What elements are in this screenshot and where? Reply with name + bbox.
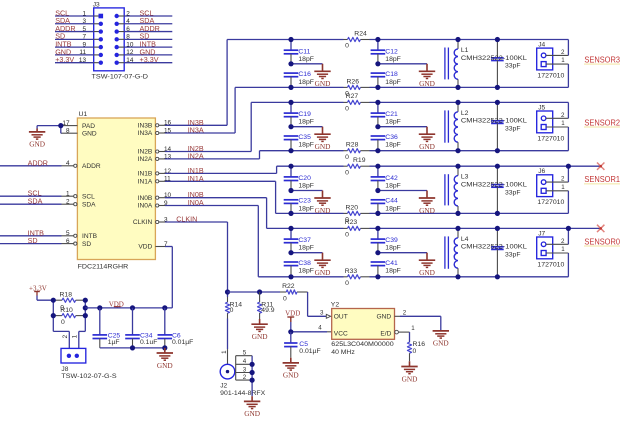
svg-text:1: 1 (561, 184, 565, 191)
svg-text:C37: C37 (298, 237, 311, 244)
svg-text:L2: L2 (461, 110, 469, 117)
connector J4 1727010 (537, 42, 569, 80)
svg-text:R28: R28 (346, 142, 359, 149)
no-connect X (597, 225, 604, 232)
svg-text:IN3A: IN3A (188, 126, 204, 135)
resistor R26 0 (345, 78, 360, 97)
U1 pin 4 ADDR (62, 160, 101, 170)
ground Y2 (433, 331, 449, 348)
wire IN3B top rail (227, 39, 568, 41)
svg-text:5: 5 (66, 230, 70, 237)
wire net IN3A (165, 87, 235, 134)
svg-text:GND: GND (419, 268, 435, 277)
svg-text:GND: GND (157, 361, 173, 370)
svg-text:GND: GND (376, 314, 391, 321)
junction right cap top (375, 100, 380, 105)
wire net SD stub (0, 236, 62, 245)
svg-text:VDD: VDD (285, 309, 300, 317)
svg-text:8: 8 (66, 128, 70, 135)
svg-text:J6: J6 (538, 168, 545, 175)
capacitor C19 18pF (284, 102, 314, 126)
svg-text:IN1B: IN1B (138, 171, 153, 178)
svg-text:GND: GND (82, 130, 97, 137)
junction right cap top (375, 226, 380, 231)
wire net IN0B (165, 190, 267, 228)
capacitor C38 18pF (284, 260, 314, 277)
svg-text:E/D: E/D (380, 330, 391, 337)
capacitor C34 0.1uF (125, 308, 157, 348)
svg-text:VDD: VDD (138, 244, 152, 251)
svg-text:40 MHz: 40 MHz (331, 349, 355, 356)
resistor R24 0 (345, 30, 367, 49)
svg-text:C41: C41 (385, 260, 398, 267)
ground left (314, 127, 330, 151)
svg-text:18pF: 18pF (385, 56, 401, 63)
svg-text:18pF: 18pF (385, 206, 401, 213)
junction VDD caps (97, 305, 102, 310)
J3 pin 8 wire / net SD (115, 32, 173, 42)
junction 33pF top (495, 164, 500, 169)
svg-text:IN2A: IN2A (188, 151, 204, 160)
Y2 pin 4 VCC (318, 325, 348, 338)
ground C5 (283, 358, 299, 380)
wire J7 pin 2 to top rail (567, 228, 569, 244)
connector J3 (92, 1, 149, 80)
connector J7 1727010 (537, 230, 569, 268)
svg-text:0: 0 (283, 296, 287, 303)
svg-text:2: 2 (66, 199, 70, 206)
svg-text:R33: R33 (345, 268, 358, 275)
svg-text:6: 6 (126, 26, 130, 33)
wire PAD/GND of U1 to ground (37, 126, 61, 134)
junction inductor bottom (455, 211, 460, 216)
junction 33pF top (495, 100, 500, 105)
svg-text:13: 13 (79, 57, 87, 64)
wire net SCL stub (0, 189, 62, 198)
junction inductor top (455, 100, 460, 105)
svg-text:GND: GND (402, 374, 418, 383)
svg-text:33pF: 33pF (505, 126, 521, 133)
junction inductor bottom (455, 85, 460, 90)
svg-text:0: 0 (61, 319, 65, 326)
J3 pin 14 wire / net +3.3V (115, 55, 173, 65)
junction inductor top (455, 164, 460, 169)
svg-text:+3.3V: +3.3V (55, 55, 74, 64)
resistor R27 0 (345, 93, 360, 112)
resistor R33 0 (345, 268, 361, 287)
svg-text:R19: R19 (353, 157, 366, 164)
svg-text:3: 3 (243, 366, 247, 373)
capacitor 33pF parallel (491, 102, 520, 150)
svg-text:1: 1 (561, 120, 565, 127)
wire left caps midpoint to ground (291, 63, 323, 65)
J3 pin 10 wire / net INTB (115, 40, 173, 50)
svg-text:SD: SD (82, 241, 91, 248)
junction left cap bottom (288, 85, 293, 90)
inductor L4 CMH322522-100KL (445, 228, 527, 276)
wire VDD to VCC pin (291, 322, 332, 332)
svg-text:INTB: INTB (82, 233, 98, 240)
svg-text:18pF: 18pF (385, 142, 401, 149)
resistor R19 0 (345, 157, 366, 176)
svg-text:R23: R23 (345, 219, 358, 226)
svg-text:L3: L3 (461, 174, 469, 181)
wire CLKIN vertical to J2 (227, 292, 229, 364)
svg-text:GND: GND (419, 142, 435, 151)
wire net ADDR stub (0, 158, 62, 167)
J3 pin 12 wire / net GND (115, 47, 173, 57)
svg-text:1727010: 1727010 (537, 73, 564, 80)
svg-text:GND: GND (244, 409, 260, 418)
junction bottom rail (130, 345, 135, 350)
junction CLKIN branch (225, 289, 230, 294)
svg-text:0.01µF: 0.01µF (299, 348, 320, 355)
svg-text:14: 14 (126, 57, 134, 64)
junction left cap bottom (288, 274, 293, 279)
svg-text:2: 2 (243, 374, 247, 381)
wire J6 pin 2 to top rail (567, 166, 569, 182)
ground right (419, 64, 435, 88)
wire net IN1B (165, 166, 277, 175)
ground left (314, 253, 330, 277)
node SENSOR3 (584, 56, 620, 65)
svg-text:VCC: VCC (334, 330, 348, 337)
svg-text:0.1uF: 0.1uF (140, 339, 157, 346)
U1 pin 17 PAD (62, 120, 96, 130)
junction top rail at connector (566, 226, 571, 231)
svg-text:GND: GND (419, 206, 435, 215)
svg-text:6: 6 (66, 238, 70, 245)
svg-text:18pF: 18pF (298, 79, 314, 86)
capacitor C25 1µF (93, 308, 121, 348)
svg-text:C20: C20 (298, 175, 311, 182)
capacitor C41 18pF (371, 260, 401, 277)
svg-text:0: 0 (345, 106, 349, 113)
svg-text:SENSOR2: SENSOR2 (584, 118, 620, 127)
svg-text:18pF: 18pF (298, 142, 314, 149)
svg-text:1727010: 1727010 (537, 261, 564, 268)
J3 pin 5 wire / net ADDR (55, 24, 103, 34)
node SENSOR1 (584, 175, 620, 184)
capacitor 33pF parallel (491, 228, 520, 276)
svg-text:18pF: 18pF (298, 268, 314, 275)
J3 pin 4 wire / net SDA (115, 16, 173, 26)
svg-text:10: 10 (126, 41, 134, 48)
U1 pin 15 IN3A (138, 127, 172, 137)
U1 pin 2 SDA (62, 199, 97, 209)
svg-text:R26: R26 (347, 78, 360, 85)
capacitor C37 18pF (284, 228, 314, 252)
Y2 pin 3 OUT (320, 310, 348, 321)
inductor L3 CMH322522-100KL (445, 166, 527, 213)
svg-text:IN0B: IN0B (138, 195, 153, 202)
svg-text:1: 1 (561, 57, 565, 64)
junction inductor top (455, 226, 460, 231)
svg-text:18pF: 18pF (385, 245, 401, 252)
svg-text:+3.3V: +3.3V (140, 55, 159, 64)
svg-text:IN2A: IN2A (138, 156, 153, 163)
capacitor 33pF parallel (491, 40, 520, 88)
wire net IN1A (165, 174, 276, 214)
svg-text:GND: GND (252, 332, 268, 341)
svg-text:2: 2 (403, 310, 407, 317)
svg-text:1: 1 (82, 10, 86, 17)
svg-text:33pF: 33pF (505, 63, 521, 70)
wire +3.3V to resistors (37, 296, 53, 301)
wire J4 pin 2 to top rail (567, 40, 569, 56)
wire decoupling caps bottom rail (100, 347, 165, 349)
junction 33pF bottom (495, 148, 500, 153)
J3 pin 2 wire / net SCL (115, 8, 173, 18)
wire net SDA stub (0, 197, 62, 206)
wire IN1A bottom rail (276, 212, 569, 214)
svg-text:SD: SD (28, 236, 38, 245)
svg-text:Y2: Y2 (331, 302, 340, 309)
capacitor C5 0.01uF (284, 332, 320, 358)
wire right caps midpoint to ground (378, 190, 427, 192)
svg-text:C21: C21 (385, 111, 398, 118)
svg-text:GND: GND (315, 268, 331, 277)
connector J8 TSW-102-07-G-S (61, 334, 117, 380)
wire J6 pin 1 to bottom rail (567, 191, 569, 214)
ground right (419, 253, 435, 277)
svg-text:C11: C11 (298, 48, 310, 55)
svg-text:C12: C12 (385, 48, 398, 55)
svg-text:0: 0 (345, 43, 349, 50)
capacitor C35 18pF (284, 134, 314, 151)
ground near U1 (29, 132, 45, 149)
svg-text:7: 7 (82, 34, 86, 41)
ground left (314, 191, 330, 215)
junction left cap mid (288, 250, 293, 255)
wire J4 pin 1 to bottom rail (567, 64, 569, 87)
svg-text:C23: C23 (298, 198, 311, 205)
wire oscillator branch (228, 292, 327, 316)
svg-text:1: 1 (561, 246, 565, 253)
svg-text:1727010: 1727010 (537, 199, 564, 206)
wire IN2B top rail (251, 101, 568, 103)
svg-text:C44: C44 (385, 198, 398, 205)
svg-text:OUT: OUT (334, 314, 348, 321)
svg-text:R24: R24 (354, 30, 367, 37)
svg-text:C18: C18 (385, 71, 398, 78)
junction right cap top (375, 37, 380, 42)
svg-text:TSW-102-07-G-S: TSW-102-07-G-S (61, 373, 117, 380)
U1 pin 8 GND (62, 128, 97, 138)
resistor R10 0 (53, 307, 85, 326)
wire net IN2A (165, 151, 260, 161)
svg-text:R22: R22 (282, 283, 295, 290)
svg-text:18pF: 18pF (385, 268, 401, 275)
svg-text:J4: J4 (538, 42, 545, 49)
svg-text:J2: J2 (220, 383, 227, 390)
U1 pin 16 IN3B (138, 120, 172, 130)
capacitor C23 18pF (284, 198, 314, 214)
svg-text:4: 4 (243, 358, 247, 365)
junction right cap bottom (375, 274, 380, 279)
svg-text:CMH322522-100KL: CMH322522-100KL (461, 182, 527, 189)
svg-text:GND: GND (419, 79, 435, 88)
U1 pin 10 IN0B (138, 192, 172, 202)
svg-text:IN3B: IN3B (138, 123, 153, 130)
junction inductor top (455, 37, 460, 42)
svg-text:2: 2 (126, 10, 130, 17)
ground R11 (251, 319, 267, 341)
U1 pin 12 IN1B (138, 168, 172, 178)
wire J5 pin 2 to top rail (567, 102, 569, 118)
junction PAD-GND (58, 123, 63, 128)
ground right (419, 127, 435, 151)
svg-text:1: 1 (411, 325, 415, 332)
svg-text:C16: C16 (298, 71, 311, 78)
ground J2 (244, 396, 260, 418)
svg-text:GND: GND (433, 339, 449, 348)
svg-text:9: 9 (82, 41, 86, 48)
junction top rail at connector (566, 164, 571, 169)
node SENSOR0 (584, 237, 620, 246)
capacitor C6 0.01µF (158, 308, 194, 348)
svg-text:901-144-8RFX: 901-144-8RFX (220, 390, 266, 397)
Y2 pin 1 E/D (380, 325, 415, 337)
wire Y2 GND to ground (400, 316, 441, 331)
J3 pin 11 wire / net GND (55, 47, 103, 57)
svg-text:TSW-107-07-G-D: TSW-107-07-G-D (92, 74, 149, 81)
resistor R23 0 (345, 219, 361, 238)
junction left cap mid (288, 61, 293, 66)
svg-text:PAD: PAD (82, 123, 95, 130)
junction right cap top (375, 164, 380, 169)
junction right cap mid (375, 61, 380, 66)
ground left (314, 64, 330, 88)
svg-text:R10: R10 (60, 307, 73, 314)
wire IN1B top rail (277, 165, 601, 167)
svg-text:SENSOR3: SENSOR3 (584, 56, 620, 65)
svg-text:C38: C38 (298, 260, 311, 267)
svg-text:ADDR: ADDR (28, 158, 48, 167)
wire net IN2B (165, 102, 251, 153)
svg-text:C42: C42 (385, 175, 398, 182)
U1 pin 3 CLKIN (133, 216, 168, 226)
capacitor 33pF parallel (491, 166, 520, 213)
wire IN3A bottom rail (235, 86, 568, 88)
resistor R14 0 (225, 301, 242, 314)
svg-text:IN3A: IN3A (138, 130, 153, 137)
U1 pin 13 IN2A (138, 153, 172, 163)
svg-text:SENSOR1: SENSOR1 (584, 175, 620, 184)
wire IN2A bottom rail (260, 150, 569, 152)
capacitor C39 18pF (371, 228, 401, 252)
svg-text:4: 4 (126, 18, 130, 25)
junction right cap mid (375, 188, 380, 193)
svg-text:IN1A: IN1A (188, 174, 204, 183)
svg-text:625L3C040M00000: 625L3C040M00000 (331, 341, 394, 348)
svg-text:R16: R16 (413, 341, 426, 348)
svg-text:0.01µF: 0.01µF (172, 339, 193, 346)
svg-text:33pF: 33pF (505, 189, 521, 196)
svg-text:CMH322522-100KL: CMH322522-100KL (461, 118, 527, 125)
wire net CLKIN (165, 215, 228, 293)
svg-text:C39: C39 (385, 237, 398, 244)
svg-text:18pF: 18pF (385, 183, 401, 190)
capacitor C11 18pF (284, 40, 314, 64)
wire right caps midpoint to ground (378, 63, 427, 65)
svg-text:C35: C35 (298, 134, 311, 141)
junction left cap top (288, 37, 293, 42)
op-amp U1 FDC2114RGHR body (77, 111, 155, 270)
svg-text:18pF: 18pF (298, 183, 314, 190)
svg-text:GND: GND (315, 206, 331, 215)
U1 pin 9 IN0A (138, 200, 168, 210)
junction 33pF bottom (495, 211, 500, 216)
resistor R18 0 (53, 292, 85, 312)
svg-text:0: 0 (345, 232, 349, 239)
svg-text:U1: U1 (79, 111, 88, 118)
junction inductor bottom (455, 274, 460, 279)
capacitor C21 18pF (371, 102, 401, 126)
svg-text:1µF: 1µF (108, 339, 120, 346)
junction R18-R10 left (51, 298, 56, 303)
capacitor C16 18pF (284, 71, 314, 87)
svg-text:3: 3 (82, 18, 86, 25)
capacitor C12 18pF (371, 40, 401, 64)
wire J7 pin 1 to bottom rail (567, 253, 569, 277)
connector J5 1727010 (537, 104, 569, 142)
resistor R20 0 (345, 204, 360, 223)
wire net IN0A (165, 198, 258, 277)
junction R11 top (257, 289, 262, 294)
svg-text:C36: C36 (385, 134, 398, 141)
svg-text:12: 12 (126, 49, 134, 56)
junction left cap top (288, 164, 293, 169)
svg-text:CLKIN: CLKIN (133, 219, 153, 226)
svg-text:SDA: SDA (28, 197, 43, 206)
node SENSOR2 (584, 118, 620, 127)
svg-text:49.9: 49.9 (261, 307, 274, 314)
svg-text:1: 1 (72, 334, 79, 338)
svg-text:GND: GND (315, 79, 331, 88)
svg-text:SDA: SDA (82, 201, 96, 208)
wire right caps midpoint to ground (378, 252, 427, 254)
svg-text:0: 0 (413, 348, 417, 355)
resistor R22 0 (282, 283, 297, 303)
junction C5 (288, 329, 293, 334)
svg-text:IN0A: IN0A (138, 203, 153, 210)
svg-text:IN0A: IN0A (188, 198, 204, 207)
J3 pin 6 wire / net ADDR (115, 24, 173, 34)
wire VDD rail (85, 247, 172, 308)
svg-text:11: 11 (79, 49, 86, 56)
J3 pin 7 wire / net SD (55, 32, 103, 42)
U1 pin 1 SCL (62, 191, 96, 201)
junction left cap mid (288, 124, 293, 129)
wire right parallel branch to J8 (79, 300, 86, 348)
power VDD label (109, 300, 124, 308)
ground decoupling (157, 348, 173, 370)
capacitor C36 18pF (371, 134, 401, 151)
ground R16 (401, 361, 417, 383)
junction right cap mid (375, 124, 380, 129)
junction left cap top (288, 100, 293, 105)
junction 33pF top (495, 226, 500, 231)
svg-text:18pF: 18pF (385, 119, 401, 126)
wire J2 ground pins (251, 356, 253, 397)
junction right cap bottom (375, 85, 380, 90)
svg-text:18pF: 18pF (385, 79, 401, 86)
J3 pin 9 wire / net INTB (55, 40, 103, 50)
svg-text:J5: J5 (538, 104, 545, 111)
resistor R11 49.9 (258, 292, 275, 319)
J3 pin 1 wire / net SCL (55, 8, 103, 18)
